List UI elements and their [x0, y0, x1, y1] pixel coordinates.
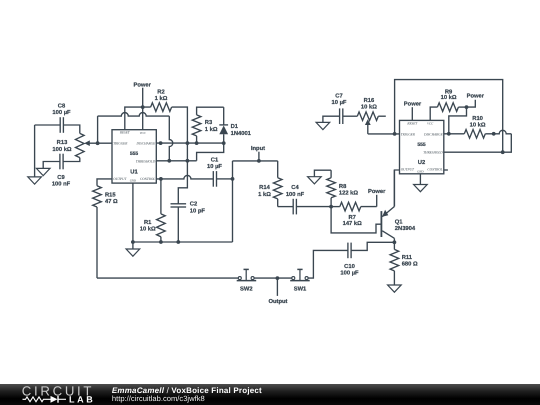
svg-text:THRESHOLD: THRESHOLD: [423, 150, 443, 154]
svg-text:555: 555: [130, 151, 139, 157]
label Q1: [395, 218, 416, 232]
svg-text:100 µF: 100 µF: [52, 109, 71, 116]
svg-text:147 kΩ: 147 kΩ: [343, 220, 363, 227]
wire: [376, 195, 378, 207]
resistor R1: [157, 179, 166, 242]
label Power: [467, 94, 485, 100]
op-amp U2 555 box: [400, 120, 444, 173]
wire: [503, 134, 512, 152]
wire: [430, 107, 437, 120]
ground: [316, 122, 330, 129]
svg-text:10 kΩ: 10 kΩ: [441, 94, 457, 101]
label Power: [368, 189, 386, 195]
wire: [485, 130, 511, 134]
svg-text:1 kΩ: 1 kΩ: [258, 191, 271, 198]
junction: [501, 150, 505, 154]
svg-text:D1: D1: [231, 124, 239, 130]
svg-text:http://circuitlab.com/c3jwfk8: http://circuitlab.com/c3jwfk8: [112, 394, 205, 403]
wire: [197, 143, 224, 161]
svg-text:100 kΩ: 100 kΩ: [52, 146, 72, 153]
svg-text:100 µF: 100 µF: [340, 269, 359, 276]
label R11: [402, 255, 418, 268]
label Power: [404, 101, 422, 107]
svg-text:RESET: RESET: [119, 131, 131, 135]
wire: [278, 206, 294, 208]
svg-text:C8: C8: [58, 103, 66, 110]
capacitor C9: [60, 154, 63, 170]
svg-text:DISCHARGE: DISCHARGE: [136, 142, 157, 146]
wire: [156, 142, 223, 144]
junction: [231, 177, 235, 181]
wire: [296, 206, 331, 208]
svg-text:GND: GND: [417, 169, 424, 173]
svg-text:R7: R7: [348, 215, 355, 221]
svg-text:TRIGGER: TRIGGER: [113, 142, 128, 146]
switch SW1: [290, 269, 310, 280]
svg-text:10 kΩ: 10 kΩ: [140, 226, 156, 233]
junction: [186, 141, 190, 145]
capacitor C1: [213, 171, 216, 187]
svg-text:OUTPUT: OUTPUT: [401, 168, 415, 172]
wire: [142, 107, 144, 130]
wire: [197, 107, 224, 115]
wire: [444, 169, 448, 171]
wire: [444, 133, 465, 135]
junction: [329, 205, 333, 209]
resistor R14: [273, 178, 282, 207]
wire: [125, 107, 151, 130]
junction: [159, 240, 163, 244]
op-amp U1 555 box: [112, 130, 156, 183]
junction: [176, 240, 180, 244]
wire: [132, 183, 134, 249]
label C7: [332, 93, 347, 107]
wire: [351, 242, 394, 250]
resistor R11: [390, 242, 399, 285]
wire: [419, 174, 421, 185]
svg-text:10 kΩ: 10 kΩ: [361, 104, 377, 111]
wire: [308, 250, 348, 278]
svg-text:Q1: Q1: [395, 218, 404, 225]
svg-text:1N4001: 1N4001: [231, 130, 252, 137]
wire: [35, 124, 61, 126]
svg-text:DISCHARGE: DISCHARGE: [423, 132, 444, 136]
svg-text:122 kΩ: 122 kΩ: [339, 189, 359, 196]
svg-text:C2: C2: [190, 201, 197, 208]
svg-text:Power: Power: [404, 101, 422, 107]
svg-text:R11: R11: [402, 255, 413, 261]
svg-text:U1: U1: [130, 170, 138, 176]
junction: [257, 159, 261, 163]
capacitor C7: [340, 108, 343, 124]
wire: [277, 161, 279, 178]
svg-text:OUTPUT: OUTPUT: [113, 177, 127, 181]
svg-text:C10: C10: [344, 263, 355, 270]
wire: [343, 115, 358, 117]
junction: [492, 132, 496, 136]
label R1: [140, 220, 156, 233]
footer title text: [112, 386, 262, 403]
footer bar: [0, 384, 540, 405]
wire: [63, 125, 80, 133]
wire: [254, 277, 292, 279]
label R14: [258, 185, 271, 198]
wire: [97, 179, 112, 186]
wire: [368, 133, 400, 135]
wire: [98, 113, 170, 117]
svg-text:R15: R15: [105, 193, 116, 199]
junction: [393, 240, 397, 244]
svg-text:R16: R16: [364, 97, 375, 104]
wire: [331, 207, 381, 233]
label SW1: [294, 286, 307, 293]
junction: [167, 159, 171, 163]
resistor R15: [93, 186, 102, 207]
svg-text:Power: Power: [368, 189, 386, 195]
wire: [449, 107, 467, 134]
svg-text:R14: R14: [259, 185, 270, 191]
svg-text:Power: Power: [133, 82, 151, 88]
svg-text:GND: GND: [130, 179, 137, 183]
resistor R8: [327, 170, 336, 206]
svg-text:C9: C9: [57, 174, 65, 181]
wire: [89, 142, 113, 144]
junction: [186, 159, 190, 163]
wire: [258, 152, 260, 161]
svg-text:C7: C7: [335, 93, 342, 100]
label SW2: [240, 286, 253, 293]
diode D1: [219, 107, 228, 143]
wire: [178, 143, 187, 204]
svg-text:47 Ω: 47 Ω: [105, 198, 118, 205]
ground: [388, 285, 402, 292]
logo CircuitLab: [22, 384, 95, 405]
svg-text:R2: R2: [157, 89, 164, 96]
resistor R2: [151, 103, 172, 112]
wire: [177, 207, 179, 242]
wire: [411, 107, 413, 120]
svg-text:10 µF: 10 µF: [207, 163, 222, 170]
svg-text:C1: C1: [211, 157, 219, 164]
wire: [458, 106, 466, 108]
svg-text:10 µF: 10 µF: [332, 99, 347, 106]
resistor R10: [464, 130, 485, 139]
label C9: [52, 174, 71, 188]
label R15: [105, 193, 118, 206]
svg-text:1 kΩ: 1 kΩ: [205, 126, 218, 133]
label C4: [286, 184, 305, 198]
wire: [97, 277, 238, 279]
potentiometer R13: [76, 133, 85, 157]
capacitor C2: [171, 204, 187, 207]
label D1: [231, 124, 252, 137]
capacitor C4: [293, 199, 296, 215]
svg-text:VCC: VCC: [140, 131, 147, 135]
ground: [36, 168, 50, 175]
label R9: [441, 88, 457, 101]
svg-text:RESET: RESET: [406, 121, 418, 125]
wire: [34, 125, 36, 177]
junction: [276, 276, 280, 280]
label R7: [343, 215, 363, 227]
wire: [169, 116, 173, 161]
svg-text:C4: C4: [291, 184, 299, 191]
ground: [28, 177, 42, 184]
svg-text:SW2: SW2: [240, 286, 253, 293]
svg-text:U2: U2: [418, 159, 425, 166]
label R8: [339, 183, 359, 197]
label U2 pins: [401, 121, 444, 173]
svg-text:R13: R13: [57, 139, 68, 146]
label U1 pins: [113, 131, 156, 183]
label Output: [269, 298, 288, 305]
svg-text:VCC: VCC: [427, 122, 434, 126]
svg-text:Output: Output: [269, 298, 288, 305]
label R16: [361, 97, 377, 110]
wire: [196, 136, 198, 143]
capacitor C10: [348, 243, 351, 259]
wire: [133, 241, 233, 243]
junction: [222, 141, 226, 145]
svg-text:R3: R3: [205, 119, 213, 126]
label C1: [207, 157, 222, 170]
svg-text:CONTROL: CONTROL: [427, 168, 442, 172]
capacitor C8: [60, 117, 63, 133]
wire: [394, 170, 399, 207]
wire: [378, 115, 386, 117]
svg-text:R8: R8: [339, 183, 347, 190]
wire: [217, 178, 233, 180]
wire: [232, 161, 234, 242]
svg-text:THRESHOLD: THRESHOLD: [136, 160, 156, 164]
wire: [467, 100, 476, 107]
label R3: [205, 119, 218, 133]
junction: [96, 141, 100, 145]
svg-text:TRIGGER: TRIGGER: [401, 132, 416, 136]
wire: [323, 116, 340, 122]
potentiometer R16: [357, 112, 378, 121]
junction: [465, 105, 469, 109]
wire: [63, 158, 80, 162]
switch SW2: [237, 269, 257, 280]
wire: [444, 151, 503, 153]
wire: [276, 278, 278, 296]
label Input: [251, 146, 265, 152]
label R13: [52, 139, 72, 153]
junction: [195, 141, 199, 145]
svg-text:10 kΩ: 10 kΩ: [470, 121, 486, 128]
svg-text:CONTROL: CONTROL: [140, 177, 155, 181]
svg-text:555: 555: [417, 142, 426, 148]
wire: [43, 162, 60, 169]
wire: [142, 88, 144, 107]
svg-text:SW1: SW1: [294, 286, 307, 293]
wiper arrow R16: [365, 119, 371, 134]
label R2: [155, 89, 168, 102]
junction: [159, 177, 163, 181]
svg-text:Input: Input: [251, 146, 265, 152]
svg-text:100 nF: 100 nF: [286, 191, 305, 198]
label C10: [340, 263, 359, 277]
junction: [393, 132, 397, 136]
svg-text:R10: R10: [472, 115, 483, 122]
wire: [395, 80, 503, 153]
label C2: [190, 201, 206, 215]
svg-text:680 Ω: 680 Ω: [402, 261, 418, 268]
svg-text:2N3904: 2N3904: [395, 225, 416, 232]
wire: [156, 175, 213, 179]
wire: [172, 107, 188, 143]
svg-text:LAB: LAB: [69, 395, 95, 405]
svg-text:100 nF: 100 nF: [52, 181, 71, 188]
resistor R9: [437, 103, 458, 112]
wiper arrow R13: [84, 140, 90, 146]
wire: [156, 160, 196, 162]
junction: [447, 132, 451, 136]
svg-text:10 pF: 10 pF: [190, 207, 206, 214]
ground: [126, 249, 140, 256]
junction: [159, 141, 163, 145]
label Power: [133, 82, 151, 88]
wire: [233, 160, 278, 162]
ground: [308, 177, 322, 184]
svg-text:Power: Power: [467, 94, 485, 100]
svg-text:1 kΩ: 1 kΩ: [155, 95, 168, 102]
wire: [96, 207, 98, 278]
wire: [314, 170, 331, 177]
junction: [141, 105, 145, 109]
label R10: [470, 115, 486, 128]
junction: [131, 240, 135, 244]
transistor Q1: [381, 170, 394, 242]
wire: [97, 116, 99, 143]
svg-text:R1: R1: [144, 220, 152, 226]
label C8: [52, 103, 71, 117]
resistor R3: [192, 115, 201, 136]
resistor R7: [331, 202, 377, 211]
ground: [414, 185, 428, 192]
